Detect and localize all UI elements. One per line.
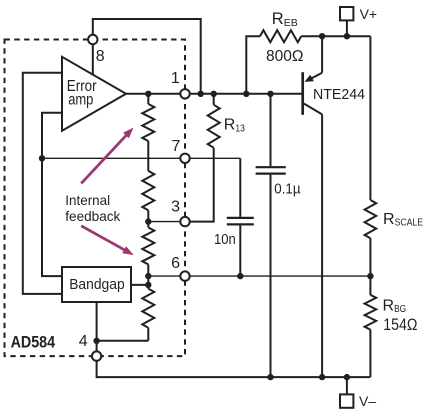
annotation arrow to lower chain resistor (81, 226, 126, 251)
resistor chain R1 (pin1-pin3 upper) with leads (147, 94, 149, 104)
svg-text:4: 4 (79, 333, 88, 350)
wire right rail V+ row down to R_SCALE (369, 36, 371, 200)
resistor chain R2 (142, 171, 154, 210)
wire R_BG top lead (369, 276, 371, 295)
svg-text:0.1µ: 0.1µ (274, 181, 301, 197)
resistor chain R3 (142, 228, 154, 265)
resistor R_EB with leads (246, 36, 260, 94)
svg-text:8: 8 (96, 48, 105, 65)
svg-text:7: 7 (172, 138, 181, 155)
V+ terminal square (340, 7, 353, 20)
wire pin 8 to error-amp top edge (92, 34, 94, 75)
svg-text:AD584: AD584 (11, 333, 56, 351)
wire 0.1u capacitor top (pin-1 row down to plate) (270, 94, 272, 166)
wire pin-6 row (chain to R_SCALE/R_BG node) (148, 275, 370, 277)
svg-text:V–: V– (359, 393, 376, 409)
capacitor 10n plates (227, 218, 254, 225)
wire transistor emitter drop (321, 36, 323, 72)
pin 8 terminal circle (88, 35, 97, 44)
wire error-amp lower input down to bandgap upper-left (42, 113, 62, 276)
wire bandgap bottom to pin-4 node (96, 302, 98, 341)
wire pin-4 node through pin 4 to bottom rail (97, 341, 371, 377)
svg-text:800Ω: 800Ω (266, 48, 304, 65)
pin 1 terminal circle (180, 89, 189, 98)
wire 0.1u capacitor bottom to bottom rail (270, 175, 272, 378)
wire pin-4 row (node to chain bottom) (97, 340, 149, 342)
resistor R_SCALE zigzag (365, 200, 377, 238)
wire top loop from pin 8 to node at pin-1 row (93, 19, 201, 94)
annotation arrow to upper chain resistor (81, 134, 127, 183)
transistor collector diagonal (304, 104, 322, 115)
wire pin-7 row to 10n capacitor top (42, 157, 240, 159)
svg-text:154Ω: 154Ω (383, 316, 417, 334)
pin 7 terminal circle (180, 154, 189, 163)
pin 4 terminal circle (92, 351, 101, 360)
svg-text:feedback: feedback (65, 208, 121, 224)
resistor chain R4 (142, 289, 154, 328)
capacitor 0.1u plates (256, 167, 286, 173)
svg-text:NTE244: NTE244 (313, 87, 365, 103)
wire pin-3 row left (chain to pin 3) (148, 221, 185, 223)
svg-text:6: 6 (171, 255, 180, 272)
wire V- stub (346, 377, 348, 395)
transistor Q1 NTE244 base bar (301, 72, 304, 115)
svg-text:10n: 10n (214, 232, 236, 248)
resistor R13 with leads (pin1 row to pin 3) (213, 94, 215, 105)
svg-text:Internal: Internal (65, 192, 110, 208)
svg-text:Bandgap: Bandgap (69, 277, 125, 293)
op-amp error amplifier triangle (62, 57, 126, 131)
bandgap cell box (62, 267, 131, 302)
wire bandgap right to chain (131, 284, 148, 286)
svg-text:V+: V+ (360, 6, 378, 22)
svg-text:amp: amp (68, 92, 93, 109)
wire error-amp upper input down to bandgap lower-left (23, 73, 62, 294)
wire R_SCALE bottom to pin-6 node (369, 238, 371, 276)
junction dots (145, 91, 151, 97)
wire pin-1 row: error-amp output to transistor base (126, 93, 302, 95)
wire 10n capacitor bottom to pin-6 row (239, 225, 241, 276)
svg-text:3: 3 (171, 199, 180, 216)
svg-text:1: 1 (171, 70, 180, 87)
wire V+ drop to R_EB row (346, 21, 348, 37)
AD584 dashed package outline (5, 40, 186, 357)
wire 10n capacitor top drop (239, 158, 241, 217)
V- terminal square (340, 394, 353, 407)
resistor R_BG zigzag (365, 295, 377, 330)
wire transistor collector down to bottom rail (321, 114, 323, 377)
pin 6 terminal circle (180, 271, 189, 280)
pin 3 terminal circle (180, 217, 189, 226)
transistor emitter diagonal with arrow (311, 73, 322, 79)
wire R_BG bottom to bottom rail (369, 330, 371, 378)
